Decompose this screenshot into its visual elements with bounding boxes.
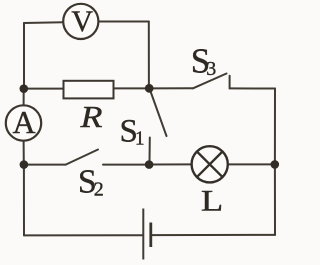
switch S3 contact stub: [229, 76, 231, 89]
wire node J2 to S3 pivot: [149, 87, 193, 89]
svg-text:R: R: [79, 100, 102, 134]
lamp L circle: [192, 146, 228, 182]
wire node J3 to lamp: [149, 163, 191, 165]
wire node J5 to S2 pivot: [24, 164, 66, 166]
node J5 junction dot: [20, 160, 29, 169]
wire top-right horizontal (voltmeter to corner): [98, 21, 148, 23]
svg-text:A: A: [13, 104, 36, 140]
wire left column upper (top corner down to node J1): [23, 23, 25, 89]
battery long plate: [142, 209, 144, 260]
wire S2 contact to node J3: [103, 164, 149, 166]
wire lamp to node J4: [229, 163, 275, 165]
wire top-left horizontal (corner to voltmeter): [24, 21, 63, 24]
wire bottom right (battery to corner): [151, 234, 275, 236]
wire S3 contact to top-right corner: [230, 87, 275, 89]
wire right side of voltmeter loop (down to node J2): [148, 22, 150, 89]
svg-text:V: V: [71, 5, 93, 38]
switch S1 contact stub: [149, 138, 151, 164]
node J1 junction dot: [20, 84, 29, 93]
wire node J1 to resistor: [24, 88, 64, 90]
svg-text:2: 2: [94, 179, 104, 201]
wire right column lower (node J4 to bottom corner): [274, 164, 276, 235]
wire bottom left (corner to battery): [24, 234, 143, 236]
node J4 junction dot: [271, 160, 280, 169]
svg-text:1: 1: [135, 128, 145, 149]
node J3 junction dot: [145, 160, 154, 169]
svg-text:L: L: [201, 185, 223, 218]
switch S1 blade: [150, 91, 166, 137]
voltmeter U1 circle: [63, 4, 98, 39]
switch S3 blade: [193, 74, 227, 89]
svg-text:3: 3: [206, 58, 216, 80]
wire resistor to node J2: [114, 87, 150, 89]
node J2 junction dot: [145, 84, 154, 93]
lamp L cross: [197, 152, 223, 178]
switch S2 blade: [66, 150, 98, 165]
wire node J1 to ammeter top: [23, 89, 25, 106]
wire right column upper (corner down to node J4): [274, 89, 276, 165]
resistor R body: [64, 81, 114, 99]
wire left column lower (node J5 to bottom corner): [23, 165, 25, 236]
battery short plate: [149, 223, 152, 248]
ammeter U2 circle: [6, 105, 41, 140]
wire ammeter bottom to node J5: [23, 141, 25, 165]
